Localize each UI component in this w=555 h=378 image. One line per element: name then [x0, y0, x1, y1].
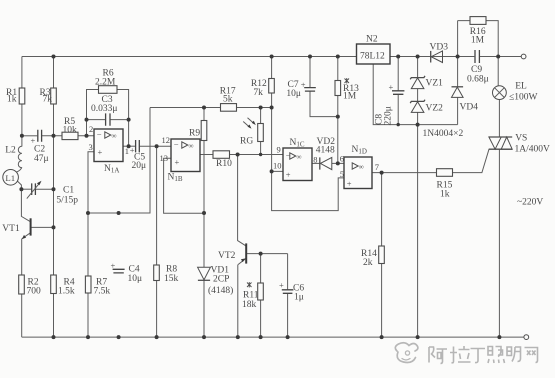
- svg-text:+: +: [175, 157, 180, 167]
- svg-text:1: 1: [125, 146, 129, 156]
- svg-text:3: 3: [89, 142, 93, 152]
- svg-text:VD4: VD4: [460, 103, 479, 113]
- svg-text:~220V: ~220V: [517, 198, 543, 208]
- svg-text:N1B: N1B: [168, 172, 183, 183]
- svg-text:≤100W: ≤100W: [509, 93, 537, 103]
- svg-text:−: −: [286, 150, 291, 160]
- svg-text:9: 9: [277, 145, 281, 155]
- svg-text:10k: 10k: [63, 126, 78, 136]
- svg-text:VZ1: VZ1: [426, 79, 444, 89]
- svg-text:−: −: [97, 129, 102, 139]
- svg-text:R9: R9: [189, 129, 200, 139]
- svg-text:+: +: [279, 280, 284, 290]
- svg-text:2k: 2k: [363, 258, 373, 268]
- svg-text:7k: 7k: [253, 88, 263, 98]
- svg-text:2CP: 2CP: [213, 275, 229, 285]
- svg-text:7: 7: [375, 162, 379, 172]
- svg-text:0.033μ: 0.033μ: [91, 104, 117, 114]
- svg-text:+: +: [347, 178, 352, 188]
- svg-text:700: 700: [27, 287, 42, 297]
- svg-text:+: +: [286, 169, 291, 179]
- svg-text:R8: R8: [166, 265, 177, 275]
- svg-text:15k: 15k: [164, 274, 179, 284]
- svg-text:∞: ∞: [359, 163, 364, 171]
- svg-text:C1: C1: [63, 186, 74, 196]
- svg-text:VS: VS: [515, 134, 527, 144]
- svg-text:(4148): (4148): [208, 285, 233, 296]
- svg-text:RG: RG: [240, 137, 253, 147]
- svg-text:∞: ∞: [112, 132, 117, 140]
- svg-text:13: 13: [160, 153, 169, 163]
- svg-text:6: 6: [340, 154, 344, 164]
- svg-text:1μ: 1μ: [294, 293, 304, 303]
- svg-text:8: 8: [313, 155, 317, 165]
- svg-text:−: −: [174, 139, 179, 149]
- svg-text:1M: 1M: [471, 36, 485, 46]
- svg-text:1k: 1k: [7, 95, 17, 105]
- svg-text:1M: 1M: [343, 92, 357, 102]
- svg-text:1A/400V: 1A/400V: [515, 145, 551, 155]
- svg-text:10: 10: [273, 161, 282, 171]
- svg-text:78L12: 78L12: [360, 52, 385, 62]
- svg-text:10μ: 10μ: [128, 274, 143, 284]
- svg-text:12: 12: [162, 135, 171, 145]
- svg-text:1.5k: 1.5k: [58, 287, 75, 297]
- svg-text:R11: R11: [243, 291, 259, 301]
- svg-text:∞: ∞: [189, 142, 194, 150]
- svg-text:C2: C2: [34, 145, 45, 155]
- svg-text:VT2: VT2: [218, 251, 236, 261]
- svg-text:+: +: [98, 147, 103, 157]
- svg-text:220μ: 220μ: [384, 106, 394, 125]
- svg-text:L1: L1: [5, 173, 15, 183]
- svg-text:L2: L2: [5, 146, 16, 156]
- svg-text:18k: 18k: [242, 300, 257, 310]
- svg-text:N2: N2: [366, 35, 378, 45]
- svg-text:VD3: VD3: [430, 43, 449, 53]
- svg-text:4148: 4148: [316, 146, 335, 156]
- svg-text:C9: C9: [471, 65, 482, 75]
- svg-text:N1D: N1D: [352, 145, 367, 156]
- svg-text:20μ: 20μ: [132, 161, 147, 171]
- svg-text:+: +: [389, 82, 394, 92]
- svg-text:7.5k: 7.5k: [94, 287, 111, 297]
- svg-text:1k: 1k: [440, 190, 450, 200]
- svg-text:+: +: [301, 80, 306, 90]
- svg-text:5: 5: [340, 169, 344, 179]
- svg-text:5k: 5k: [223, 95, 233, 105]
- svg-text:2: 2: [89, 124, 93, 134]
- svg-text:VZ2: VZ2: [426, 104, 444, 114]
- svg-text:∞: ∞: [297, 153, 302, 161]
- svg-text:C4: C4: [129, 265, 140, 275]
- svg-text:7k: 7k: [43, 95, 53, 105]
- svg-text:N1A: N1A: [104, 164, 119, 175]
- svg-text:2.2M: 2.2M: [95, 78, 116, 88]
- svg-text:VT1: VT1: [2, 224, 20, 234]
- svg-text:EL: EL: [515, 82, 527, 92]
- svg-text:R10: R10: [216, 159, 232, 169]
- svg-text:+: +: [111, 261, 116, 271]
- svg-text:5/15p: 5/15p: [56, 196, 78, 206]
- svg-text:0.68μ: 0.68μ: [467, 75, 489, 85]
- svg-text:47μ: 47μ: [34, 154, 49, 164]
- svg-text:10μ: 10μ: [286, 89, 301, 99]
- svg-text:N1C: N1C: [290, 138, 305, 149]
- svg-text:1N4004×2: 1N4004×2: [423, 129, 464, 139]
